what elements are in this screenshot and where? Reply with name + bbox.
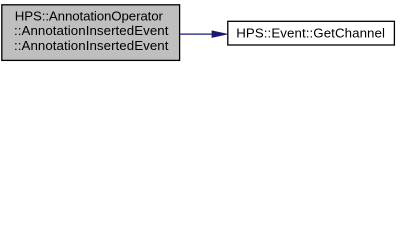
svg-text:HPS::Event::GetChannel: HPS::Event::GetChannel: [236, 26, 385, 41]
node: caller HPS::AnnotationOperator::AnnotationInsertedEvent (grey box): [2, 5, 180, 61]
svg-text:HPS::AnnotationOperator: HPS::AnnotationOperator: [15, 9, 164, 24]
svg-text:::AnnotationInsertedEvent: ::AnnotationInsertedEvent: [14, 38, 169, 53]
wire: call edge from caller to HPS::Event::GetChannel: [180, 31, 227, 38]
node: callee HPS::Event::GetChannel (white box): [228, 21, 395, 45]
svg-text:::AnnotationInsertedEvent: ::AnnotationInsertedEvent: [14, 23, 169, 38]
